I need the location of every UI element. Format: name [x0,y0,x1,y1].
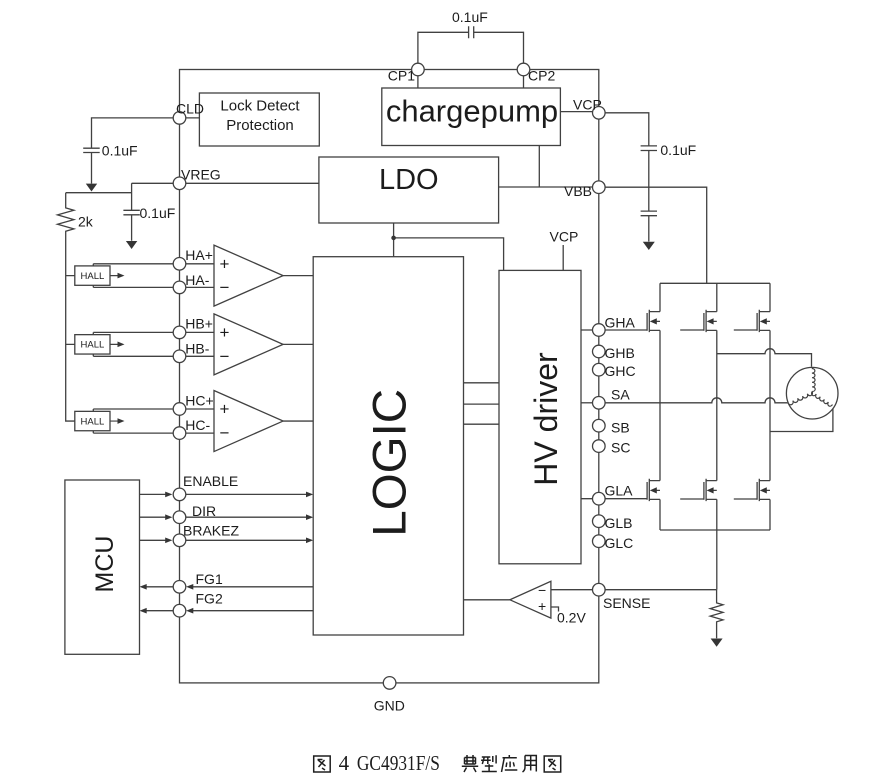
svg-text:Protection: Protection [226,117,294,134]
svg-text:−: − [220,278,230,297]
svg-text:SA: SA [611,387,630,403]
svg-text:HA-: HA- [185,272,209,288]
svg-text:LOGIC: LOGIC [364,389,417,537]
svg-text:FG1: FG1 [196,571,223,587]
svg-text:MCU: MCU [91,536,119,593]
svg-text:−: − [220,347,230,366]
svg-text:GHC: GHC [605,363,636,379]
svg-text:2k: 2k [78,214,94,230]
svg-text:HA+: HA+ [185,247,213,263]
svg-text:0.1uF: 0.1uF [140,205,176,221]
svg-text:GLB: GLB [605,515,633,531]
svg-text:HV driver: HV driver [528,352,564,486]
svg-text:CP2: CP2 [528,68,555,84]
svg-text:4: 4 [339,751,350,775]
svg-text:CLD: CLD [176,101,204,117]
svg-text:GLC: GLC [605,535,634,551]
svg-text:VBB: VBB [564,183,592,199]
svg-text:HB-: HB- [185,341,209,357]
svg-text:−: − [220,424,230,443]
svg-text:+: + [538,598,546,614]
svg-text:GLA: GLA [605,483,634,499]
svg-text:0.1uF: 0.1uF [452,9,488,25]
svg-text:GC4931F/S: GC4931F/S [357,751,440,775]
svg-text:VCP: VCP [550,229,579,245]
svg-text:0.1uF: 0.1uF [660,142,696,158]
svg-text:Lock Detect: Lock Detect [220,98,300,115]
svg-text:VCP: VCP [573,97,602,113]
svg-text:+: + [220,400,230,419]
svg-text:FG2: FG2 [196,591,223,607]
svg-text:GHA: GHA [605,315,636,331]
svg-text:HC-: HC- [185,417,210,433]
svg-text:GND: GND [374,698,405,714]
svg-text:+: + [220,254,230,273]
svg-text:HC+: HC+ [185,392,213,408]
svg-text:HALL: HALL [81,271,105,282]
svg-text:HALL: HALL [81,416,105,427]
svg-text:BRAKEZ: BRAKEZ [183,523,239,539]
svg-text:+: + [220,323,230,342]
svg-text:SB: SB [611,420,630,436]
svg-text:chargepump: chargepump [386,94,558,129]
svg-text:GHB: GHB [605,345,635,361]
svg-text:SENSE: SENSE [603,595,650,611]
svg-text:CP1: CP1 [388,68,415,84]
svg-text:DIR: DIR [192,503,216,519]
svg-text:ENABLE: ENABLE [183,473,238,489]
svg-text:LDO: LDO [379,164,439,196]
svg-text:−: − [538,582,546,598]
svg-text:VREG: VREG [181,167,221,183]
svg-text:SC: SC [611,440,630,456]
svg-text:HB+: HB+ [185,316,213,332]
svg-text:0.1uF: 0.1uF [102,143,138,159]
svg-text:HALL: HALL [81,340,105,351]
svg-text:0.2V: 0.2V [557,610,586,626]
